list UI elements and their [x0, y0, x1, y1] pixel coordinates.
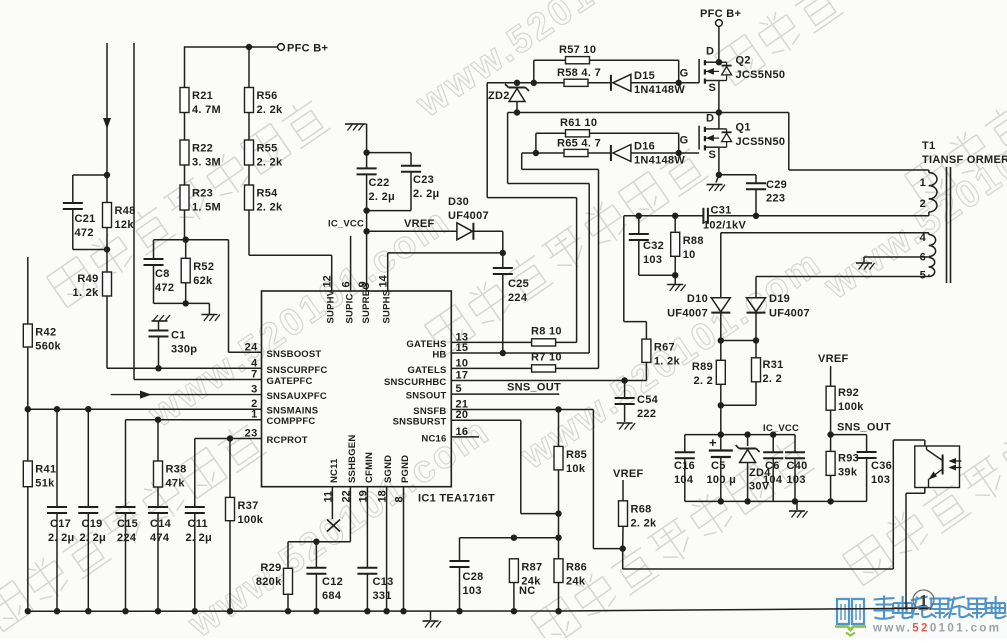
- svg-text:1: 1: [919, 591, 928, 610]
- ground at Q1 source: [707, 185, 726, 192]
- svg-text:D: D: [706, 112, 714, 124]
- svg-text:2. 2k: 2. 2k: [257, 157, 284, 169]
- junction C25 bottom on HB line: [500, 350, 506, 356]
- svg-text:C22: C22: [369, 177, 390, 189]
- wire RCPROT pin23: [195, 438, 262, 440]
- wire R89 bottom: [720, 384, 722, 405]
- resistor R87: [509, 559, 542, 588]
- svg-text:S: S: [709, 82, 717, 94]
- zener ZD4 30V: [736, 445, 772, 493]
- svg-text:R29: R29: [260, 562, 281, 574]
- capacitor C1: [149, 330, 198, 356]
- junction HB at Q2/Q1: [716, 109, 722, 115]
- junction R93 bottom: [827, 498, 833, 504]
- svg-text:1: 1: [920, 177, 926, 189]
- svg-text:C40: C40: [787, 460, 808, 472]
- wire C11 to rail: [194, 513, 196, 611]
- capacitor C23: [401, 166, 440, 200]
- junction R68/feedback: [620, 545, 626, 551]
- wire GATELS run: [522, 153, 599, 368]
- junction rail C14: [155, 608, 161, 614]
- svg-text:23: 23: [245, 428, 258, 440]
- wire R57 left drop: [534, 60, 566, 83]
- svg-text:VREF: VREF: [818, 353, 849, 365]
- junction Q2 drain: [716, 59, 722, 65]
- svg-text:HB: HB: [432, 350, 446, 361]
- svg-text:2. 2: 2. 2: [693, 375, 713, 387]
- wire pin16 NC16 stub: [451, 436, 479, 438]
- svg-text:CFMIN: CFMIN: [364, 452, 375, 483]
- svg-text:SNSMAINS: SNSMAINS: [267, 406, 319, 417]
- wire VREF to pin9 SUPREG: [366, 231, 368, 291]
- svg-text:331: 331: [373, 590, 392, 602]
- wire GATEHS run: [487, 83, 576, 343]
- svg-text:C25: C25: [508, 278, 529, 290]
- pin 23 RCPROT: [245, 428, 308, 447]
- wire R61 left drop: [536, 133, 566, 153]
- svg-text:NC: NC: [519, 585, 536, 597]
- node VREF label right: [818, 353, 849, 365]
- capacitor C6: [763, 452, 783, 486]
- svg-text:2. 2μ: 2. 2μ: [186, 532, 213, 544]
- svg-text:C8: C8: [155, 268, 170, 280]
- node marker circle 1: [913, 590, 934, 610]
- pin 3 SNSAUXPFC: [251, 384, 327, 403]
- wire C28 riser: [459, 538, 461, 561]
- capacitor C40: [785, 452, 808, 486]
- wire R21 top: [184, 46, 186, 87]
- resistor R37: [226, 497, 264, 526]
- svg-text:C13: C13: [373, 576, 394, 588]
- diode D19 UF4007: [747, 293, 810, 320]
- svg-text:10: 10: [456, 357, 469, 369]
- svg-text:R61 10: R61 10: [560, 117, 597, 129]
- svg-text:www.520101.com: www.520101.com: [872, 623, 1001, 635]
- svg-text:R21: R21: [192, 90, 213, 102]
- op-amp IC1 TEA1716T body: [262, 291, 495, 505]
- junction R42/R41: [25, 406, 31, 412]
- svg-text:UF4007: UF4007: [448, 210, 489, 222]
- pin 7 GATEPFC: [251, 369, 313, 388]
- wire R48-R49: [106, 228, 108, 273]
- resistor R38: [154, 461, 187, 490]
- wire secondary pin5 line: [756, 275, 929, 277]
- resistor R42: [23, 324, 61, 353]
- wire source to C29: [719, 175, 756, 183]
- transformer T1 secondary winding: [920, 232, 936, 282]
- junction rail R37: [227, 608, 233, 614]
- pin 6 SUPIC: [341, 281, 356, 323]
- svg-text:12k: 12k: [115, 219, 135, 231]
- junction rail/C21 bottom: [104, 246, 110, 252]
- logo site name (stylized): [874, 596, 1007, 619]
- wire pin5 SNSOUT stub: [451, 393, 559, 395]
- junction C17: [54, 406, 60, 412]
- wire C29 bottom: [755, 189, 757, 216]
- svg-text:R68: R68: [631, 503, 652, 515]
- diode D16 1N4148W: [611, 141, 685, 167]
- wire C19 riser: [87, 409, 89, 507]
- resistor R93: [826, 451, 859, 478]
- svg-text:R86: R86: [566, 561, 587, 573]
- svg-text:NC16: NC16: [421, 433, 446, 444]
- wire G1 node line: [522, 152, 564, 154]
- resistor R92: [826, 386, 864, 413]
- ground at R88: [667, 285, 686, 292]
- node VREF label: [404, 218, 435, 230]
- wire C21 top bracket: [73, 175, 107, 203]
- wire Q1 source down: [718, 147, 720, 175]
- ground at C54: [617, 423, 636, 430]
- wire C23 bottom branch: [367, 172, 411, 211]
- svg-text:224: 224: [117, 532, 137, 544]
- junction R88 top: [672, 213, 678, 219]
- svg-text:R85: R85: [566, 449, 587, 461]
- wire R22-R23: [184, 165, 186, 185]
- logo book icon: [835, 599, 866, 636]
- svg-text:D: D: [706, 46, 714, 58]
- node SNS_OUT label pin5: [507, 382, 561, 394]
- svg-text:C14: C14: [150, 518, 172, 530]
- wire R31 top: [755, 341, 757, 358]
- svg-text:SUPHS: SUPHS: [382, 290, 393, 324]
- wire R29 bottom: [287, 594, 289, 611]
- svg-text:SUPHV: SUPHV: [326, 289, 337, 323]
- junction R23/R52/C8: [183, 237, 189, 243]
- wire C17 riser: [56, 409, 58, 507]
- wire VREF stub R68: [622, 480, 624, 501]
- svg-text:103: 103: [463, 585, 482, 597]
- wire R21-R22: [184, 113, 186, 141]
- svg-text:472: 472: [75, 227, 94, 239]
- svg-text:C32: C32: [643, 240, 664, 252]
- junction R38 on COMPPFC: [155, 417, 161, 423]
- svg-text:C11: C11: [188, 518, 208, 530]
- svg-text:R67: R67: [654, 342, 675, 354]
- wire R52 top: [185, 240, 187, 259]
- wire C31 line left: [624, 215, 704, 217]
- wire C22 bottom: [366, 174, 368, 231]
- resistor R67: [642, 339, 681, 368]
- svg-text:R49: R49: [77, 273, 98, 285]
- junction D19 cathode: [753, 337, 759, 343]
- svg-text:R52: R52: [193, 261, 214, 273]
- svg-text:39k: 39k: [838, 467, 858, 479]
- svg-text:GATEHS: GATEHS: [406, 339, 446, 350]
- svg-text:TIANSF ORMER: TIANSF ORMER: [922, 154, 1007, 166]
- svg-text:1. 2k: 1. 2k: [73, 287, 100, 299]
- wire R93 top: [830, 435, 832, 452]
- junction C22/C23 bottom: [363, 207, 369, 213]
- svg-text:R58 4. 7: R58 4. 7: [557, 67, 601, 79]
- junction ZD2 top: [514, 80, 520, 86]
- wire pin5 to D19: [755, 277, 757, 298]
- wire node to C8 bracket: [154, 239, 186, 241]
- resistor R52: [181, 258, 214, 287]
- wire R88 top stub: [674, 216, 676, 233]
- wire HB to Q1 drain: [718, 113, 720, 129]
- wire C11 riser: [194, 439, 196, 508]
- junction VREF node: [363, 228, 369, 234]
- wire R67 to pin17 line: [645, 362, 647, 380]
- wire R89 top: [720, 341, 722, 361]
- transformer T1 label: [922, 140, 1007, 166]
- svg-text:2. 2k: 2. 2k: [631, 517, 658, 529]
- resistor R65: [557, 138, 601, 157]
- junction rail C12: [313, 608, 319, 614]
- svg-text:RCPROT: RCPROT: [267, 435, 308, 446]
- svg-text:2. 2μ: 2. 2μ: [80, 532, 107, 544]
- junction rail R29: [285, 608, 291, 614]
- wire C15 to rail: [125, 513, 127, 611]
- pin 8 PGND: [394, 455, 412, 503]
- capacitor C21: [63, 203, 96, 239]
- wire R37 top: [229, 439, 231, 498]
- capacitor C8: [144, 259, 175, 294]
- wire pin21 SNSFB line: [451, 409, 593, 411]
- capacitor C12: [306, 568, 343, 602]
- pin 19 CFMIN: [357, 452, 375, 503]
- wire ZD2 bottom: [516, 102, 518, 113]
- resistor R22: [180, 140, 221, 169]
- wire SNSMAINS rail pin2: [28, 408, 262, 410]
- resistor R68: [619, 501, 658, 530]
- junction PFC B+ / R56: [246, 44, 252, 50]
- resistor R21: [180, 88, 221, 117]
- pin 12 SUPHV: [322, 275, 337, 323]
- svg-text:C12: C12: [322, 576, 343, 588]
- svg-text:100k: 100k: [238, 514, 264, 526]
- wire rectifier join: [721, 340, 756, 342]
- wire SGND to rail: [386, 487, 388, 611]
- wire top gate node line: [487, 82, 564, 84]
- svg-text:C36: C36: [871, 460, 892, 472]
- no-connect X on NC11: [327, 520, 340, 532]
- svg-text:R92: R92: [838, 387, 859, 399]
- wire R56-R55: [248, 113, 250, 141]
- svg-text:GATELS: GATELS: [407, 365, 446, 376]
- resistor R56: [245, 88, 284, 117]
- svg-text:2. 2μ: 2. 2μ: [413, 188, 440, 200]
- terminal PFC B+: [278, 43, 329, 55]
- svg-text:C54: C54: [637, 394, 659, 406]
- capacitor C17: [47, 507, 75, 544]
- wire D15 to gate node: [631, 82, 679, 84]
- junction Q1 gate node: [676, 150, 682, 156]
- pin 11 NC11: [322, 458, 340, 503]
- wire primary bottom: [928, 212, 930, 216]
- svg-text:222: 222: [637, 408, 656, 420]
- pin 1 COMPPFC: [251, 409, 315, 428]
- wire source gnd stub: [716, 175, 719, 183]
- svg-text:4. 7M: 4. 7M: [192, 104, 221, 116]
- pin 2 SNSMAINS: [251, 398, 318, 417]
- resistor R8: [531, 326, 562, 347]
- wire C5 down: [720, 457, 722, 501]
- wire R23 bottom to node: [184, 210, 186, 240]
- junction C12 top: [313, 539, 319, 545]
- svg-text:104: 104: [674, 474, 694, 486]
- resistor R29: [256, 562, 293, 594]
- svg-text:G: G: [680, 68, 689, 80]
- wire C31 to transformer pin2: [708, 215, 929, 217]
- svg-text:2. 2μ: 2. 2μ: [369, 191, 396, 203]
- svg-text:IC_VCC: IC_VCC: [763, 423, 799, 434]
- wire SNSAUXPFC with arrow: [111, 391, 262, 399]
- wire R87 bottom: [513, 583, 515, 612]
- svg-text:IC_VCC: IC_VCC: [328, 219, 364, 230]
- junction rail C17: [54, 608, 60, 614]
- svg-text:SNSBOOST: SNSBOOST: [267, 349, 322, 360]
- svg-text:R93: R93: [838, 453, 859, 465]
- pin 4 SNSCURPFC: [251, 357, 327, 376]
- wire PGND to rail: [403, 487, 405, 611]
- svg-text:R57 10: R57 10: [559, 44, 596, 56]
- wire to IC_VCC rail: [720, 405, 722, 434]
- svg-text:SNSCURHBC: SNSCURHBC: [384, 377, 447, 388]
- junction rail R86: [555, 608, 561, 614]
- junction Q2 gate node: [676, 80, 682, 86]
- resistor R88: [671, 232, 704, 260]
- capacitor C13: [357, 568, 393, 602]
- wire C36 bottom: [866, 458, 868, 501]
- svg-text:R8 10: R8 10: [531, 326, 562, 338]
- junction Q1 source node: [716, 172, 722, 178]
- svg-text:103: 103: [871, 474, 890, 486]
- svg-text:62k: 62k: [193, 275, 213, 287]
- svg-text:Q1: Q1: [736, 121, 751, 133]
- pin 14 SUPHS: [378, 274, 393, 323]
- junction rail R87: [511, 608, 517, 614]
- svg-text:224: 224: [508, 292, 528, 304]
- junction C6 on rail: [770, 431, 776, 437]
- optocoupler phototransistor: [915, 446, 962, 488]
- arrow down on sense rail: [103, 118, 111, 129]
- svg-text:UF4007: UF4007: [769, 308, 810, 320]
- svg-text:G: G: [680, 134, 689, 146]
- wire PFC B+ to Q2 drain: [718, 27, 720, 63]
- svg-text:223: 223: [766, 193, 785, 205]
- svg-text:472: 472: [155, 282, 174, 294]
- wire Q2 source to HB: [718, 81, 720, 113]
- resistor R61: [560, 117, 597, 137]
- wire SSHBGEN run: [288, 487, 350, 542]
- wire to Q2 gate: [679, 82, 699, 84]
- pin 16 NC16: [421, 426, 468, 445]
- resistor R41: [23, 461, 56, 490]
- svg-text:7: 7: [251, 369, 257, 381]
- label NC for R87: [519, 585, 536, 597]
- junction rail SGND: [383, 608, 389, 614]
- wire R49 to pin4 SNSCURPFC: [107, 296, 262, 368]
- ground at R52/C8: [201, 315, 220, 322]
- wire R92 bottom: [830, 410, 832, 434]
- svg-text:R7 10: R7 10: [531, 352, 562, 364]
- svg-text:ZD2: ZD2: [488, 90, 510, 102]
- pin 24 SNSBOOST: [245, 341, 322, 360]
- svg-text:NC11: NC11: [329, 458, 340, 483]
- svg-text:R88: R88: [683, 235, 704, 247]
- wire HB run to pin15: [451, 113, 589, 354]
- svg-text:S: S: [709, 149, 717, 161]
- svg-text:Q2: Q2: [736, 55, 751, 67]
- svg-text:T1: T1: [922, 140, 935, 152]
- wire C15 riser: [125, 420, 127, 507]
- pin 13 GATEHS: [406, 331, 468, 350]
- svg-text:D10: D10: [687, 293, 708, 305]
- node VREF label R68: [613, 468, 644, 480]
- logo url: [872, 623, 1001, 635]
- svg-text:24k: 24k: [566, 575, 586, 587]
- svg-text:C23: C23: [413, 174, 434, 186]
- wire pin4 to D10: [720, 233, 722, 298]
- wire R42 to SNSMAINS rail: [27, 347, 29, 409]
- resistor R85: [554, 446, 587, 475]
- wire C40 riser: [794, 435, 796, 453]
- transformer T1 primary winding: [920, 173, 937, 213]
- svg-text:560k: 560k: [35, 341, 61, 353]
- svg-text:4: 4: [251, 357, 258, 369]
- pin 21 SNSFB: [413, 399, 468, 418]
- wire SNS_OUT to C36: [831, 435, 867, 452]
- svg-text:12: 12: [322, 275, 334, 287]
- svg-text:SNSCURPFC: SNSCURPFC: [267, 365, 328, 376]
- svg-text:SSHBGEN: SSHBGEN: [347, 435, 358, 483]
- svg-text:R31: R31: [763, 359, 784, 371]
- svg-text:103: 103: [787, 474, 806, 486]
- svg-text:17: 17: [456, 370, 469, 382]
- svg-text:10k: 10k: [566, 463, 586, 475]
- junction R37 on RCPROT: [227, 435, 233, 441]
- svg-text:330p: 330p: [171, 344, 197, 356]
- wire C12 riser: [315, 542, 317, 568]
- capacitor C11: [185, 507, 212, 544]
- junction ZD4 bottom: [744, 498, 750, 504]
- svg-text:24: 24: [245, 341, 258, 353]
- wire pin20 SNSBURST run: [451, 420, 558, 513]
- pin 18 SGND: [377, 455, 395, 503]
- svg-text:C17: C17: [50, 518, 71, 530]
- svg-text:JCS5N50: JCS5N50: [736, 136, 786, 148]
- capacitor C15: [116, 507, 139, 544]
- wire R58 to D15: [588, 82, 611, 84]
- wire R85 top stub: [558, 410, 560, 447]
- wire VCC ground rail: [685, 500, 867, 502]
- ground above C22: [345, 124, 364, 131]
- zener ZD2: [488, 84, 529, 102]
- svg-text:C6: C6: [765, 460, 780, 472]
- svg-text:R48: R48: [115, 205, 136, 217]
- svg-text:R41: R41: [35, 464, 56, 476]
- wire C19 to rail: [87, 513, 89, 611]
- junction R85 top: [555, 406, 561, 412]
- wire CFMIN to C13: [366, 487, 368, 568]
- junction D10 cathode: [718, 337, 724, 343]
- svg-text:1. 5M: 1. 5M: [192, 202, 221, 214]
- svg-text:4: 4: [920, 232, 927, 244]
- svg-text:D30: D30: [448, 196, 469, 208]
- wire C28/R87 line: [460, 537, 559, 539]
- svg-text:SNS_OUT: SNS_OUT: [837, 422, 891, 434]
- svg-text:102/1kV: 102/1kV: [703, 220, 746, 232]
- wire VREF stub: [830, 366, 832, 386]
- wire R38 top: [157, 420, 159, 461]
- svg-text:C21: C21: [75, 213, 96, 225]
- wire to pin14 SUPHS: [388, 253, 503, 291]
- wire C12 bottom: [315, 574, 317, 611]
- junction rail R41: [25, 608, 31, 614]
- wire R85 to R86: [558, 514, 560, 559]
